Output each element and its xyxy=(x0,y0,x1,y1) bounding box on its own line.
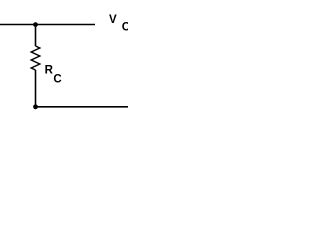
node top junction dot xyxy=(33,22,38,27)
svg-text:V: V xyxy=(109,14,117,26)
wire from resistor down to bottom junction xyxy=(35,70,37,107)
wire bottom rail xyxy=(36,106,129,108)
wire from top junction down to resistor xyxy=(35,25,37,47)
resistor R_C zigzag body xyxy=(31,46,40,70)
svg-text:C: C xyxy=(122,21,128,33)
wire top rail xyxy=(0,24,95,26)
svg-text:C: C xyxy=(53,74,61,86)
node bottom junction dot xyxy=(33,104,38,109)
svg-text:R: R xyxy=(45,65,54,77)
